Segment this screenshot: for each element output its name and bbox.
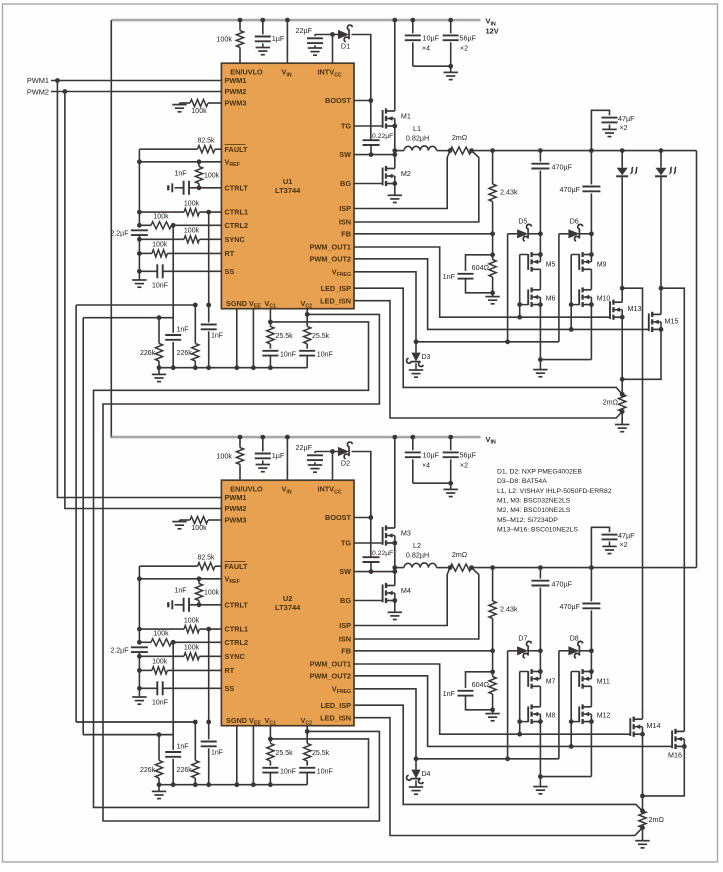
- ground 22uF U2: [308, 464, 322, 466]
- transistor M4: [386, 585, 395, 587]
- svg-text:100k: 100k: [153, 631, 169, 638]
- svg-text:12V: 12V: [486, 26, 499, 35]
- svg-text:M9: M9: [597, 262, 607, 269]
- wire VREF pin U1: [139, 161, 221, 163]
- capacitor 22uF INTVCC U2: [314, 452, 316, 454]
- svg-text:82.5k: 82.5k: [197, 555, 215, 562]
- capacitor 1nF A U2: [172, 735, 174, 750]
- svg-text:PWM2: PWM2: [225, 504, 247, 513]
- wire CTRL1 shared bus: [75, 305, 77, 722]
- resistor 100k EN/UVLO U1: [239, 20, 241, 31]
- wire CTRLT pin U2: [189, 604, 221, 606]
- transistor M7: [532, 671, 541, 673]
- resistor 604Ohm U1: [492, 234, 494, 260]
- wire VC1 shared loop: [94, 322, 369, 808]
- svg-text:TG: TG: [341, 539, 351, 548]
- svg-text:PWM_OUT2: PWM_OUT2: [310, 671, 351, 680]
- svg-text:2mΩ: 2mΩ: [649, 815, 665, 824]
- svg-text:CTRLT: CTRLT: [225, 600, 249, 609]
- wire M11 column: [590, 651, 592, 672]
- svg-text:M14: M14: [647, 721, 661, 730]
- diode D6 schottky: [559, 233, 569, 235]
- svg-text:100k: 100k: [184, 228, 200, 235]
- resistor 100k CTRL1 U2: [139, 628, 184, 630]
- svg-text:1nF: 1nF: [174, 587, 186, 594]
- svg-text:RT: RT: [225, 249, 235, 258]
- resistor 2mOhm LED sense 2: [642, 796, 644, 811]
- svg-text:0.82µH: 0.82µH: [406, 550, 429, 559]
- svg-text:M10: M10: [597, 296, 611, 303]
- wire FET cell ground join 1: [540, 359, 591, 361]
- diode D2 schottky: [338, 447, 349, 456]
- svg-text:100k: 100k: [184, 200, 200, 207]
- ground 47uF 2: [602, 545, 616, 547]
- svg-text:SS: SS: [225, 267, 235, 276]
- wire output rail 1: [395, 150, 404, 152]
- resistor 100k EN/UVLO U2: [239, 437, 241, 448]
- capacitor 1nF B U1: [208, 305, 210, 322]
- diode D1 schottky: [338, 30, 349, 39]
- svg-text:PWM_OUT1: PWM_OUT1: [310, 660, 351, 669]
- wire ISN kelvin U1: [354, 151, 479, 222]
- svg-text:CTRL2: CTRL2: [225, 221, 249, 230]
- svg-text:25.5k: 25.5k: [276, 750, 294, 757]
- svg-text:M3: M3: [401, 529, 411, 538]
- U2 top pin labels: [230, 485, 342, 496]
- svg-text:LED_ISP: LED_ISP: [321, 284, 352, 293]
- svg-text:56µF: 56µF: [460, 34, 477, 43]
- transistor M8: [532, 706, 541, 708]
- svg-text:D1: D1: [341, 42, 350, 51]
- svg-text:LED_ISP: LED_ISP: [321, 701, 352, 710]
- capacitor 1nF B U2: [208, 722, 210, 739]
- svg-text:1nF: 1nF: [177, 327, 189, 334]
- resistor 100k RT U2: [139, 669, 152, 671]
- ground FET cells 2: [533, 786, 547, 788]
- svg-text:0.82µH: 0.82µH: [406, 133, 429, 142]
- wire filter cap ground join 2: [413, 482, 451, 484]
- transistor M1: [386, 110, 395, 112]
- U2 left pin labels: [225, 493, 249, 693]
- transistor M5: [532, 254, 541, 256]
- svg-text:22µF: 22µF: [295, 26, 312, 35]
- svg-text:1µF: 1µF: [272, 451, 285, 460]
- capacitor 1nF FB U1: [466, 255, 493, 271]
- diode D7 schottky: [508, 650, 517, 652]
- wire SW pin U1: [354, 154, 395, 156]
- transistor M3: [386, 527, 395, 529]
- U2 bottom pin labels: [226, 716, 312, 727]
- svg-text:SW: SW: [339, 567, 351, 576]
- node CTRLT input probe symbol U1: [167, 185, 169, 190]
- capacitor 10nF VC2 U2: [299, 767, 315, 769]
- svg-text:M13: M13: [628, 304, 642, 313]
- svg-text:10nF: 10nF: [280, 768, 296, 775]
- resistor 100k CTRL1 U1: [139, 211, 184, 213]
- svg-text:2mΩ: 2mΩ: [452, 133, 468, 142]
- svg-text:M16: M16: [668, 751, 682, 760]
- U2 designator label: [275, 594, 301, 612]
- svg-text:FAULT: FAULT: [225, 562, 249, 571]
- svg-text:CTRL2: CTRL2: [225, 638, 249, 647]
- diode D5 schottky: [508, 233, 517, 235]
- capacitor 1uF VIN U2: [262, 437, 264, 451]
- wire SGND rail U1: [159, 367, 307, 369]
- ground 1uF U2: [256, 464, 270, 466]
- wire LED2 cathode: [660, 176, 662, 289]
- svg-text:TG: TG: [341, 122, 351, 131]
- svg-text:PWM2: PWM2: [27, 87, 49, 96]
- capacitor 10nF VC1 U1: [262, 350, 278, 352]
- wire D1 cathode to BOOST: [352, 35, 371, 141]
- capacitor 1nF A U1: [172, 318, 174, 333]
- svg-text:470µF: 470µF: [559, 185, 580, 194]
- svg-text:SYNC: SYNC: [225, 652, 246, 661]
- transistor M6: [532, 289, 541, 291]
- wire M1 drain to VIN rail: [394, 20, 396, 111]
- svg-text:1µF: 1µF: [272, 34, 285, 43]
- svg-text:LED_ISN: LED_ISN: [320, 296, 351, 305]
- ground M4 source: [388, 611, 402, 613]
- wire output rail 2: [395, 567, 404, 569]
- svg-text:D7: D7: [518, 636, 527, 643]
- svg-text:ISN: ISN: [339, 218, 351, 227]
- wire VIN pin U1: [286, 20, 288, 63]
- svg-text:2.43k: 2.43k: [500, 187, 518, 196]
- svg-text:CTRLT: CTRLT: [225, 183, 249, 192]
- capacitor 22uF INTVCC U1: [314, 35, 316, 37]
- resistor 100k RT U1: [139, 252, 152, 254]
- wire VIN rail drop to lower half: [110, 20, 112, 438]
- svg-text:×2: ×2: [620, 542, 628, 549]
- resistor 2.43k U2: [492, 568, 494, 601]
- transistor M2: [386, 168, 395, 170]
- resistor 25.5k VC2 U1: [306, 309, 308, 327]
- wire FB pin U1: [354, 233, 493, 235]
- resistor 100k PWM3 U1: [172, 104, 186, 106]
- svg-text:0.22µF: 0.22µF: [372, 550, 393, 557]
- svg-text:PWM_OUT2: PWM_OUT2: [310, 254, 351, 263]
- svg-text:226k: 226k: [177, 350, 193, 357]
- svg-text:47µF: 47µF: [618, 114, 635, 123]
- svg-text:ISP: ISP: [339, 621, 351, 630]
- resistor 100k PWM3 U2: [172, 521, 186, 523]
- U1 bottom pin labels: [226, 299, 312, 310]
- svg-text:LT3744: LT3744: [275, 603, 301, 612]
- svg-text:22µF: 22µF: [295, 443, 312, 452]
- wire PWM_OUT1 net U2: [354, 664, 630, 734]
- ground 47uF 1: [602, 128, 616, 130]
- resistor 25.5k VC1 U2: [269, 726, 271, 744]
- wire VFNEG net U1: [354, 272, 416, 342]
- capacitor 47uF x2 2: [591, 527, 609, 567]
- svg-text:M5–M12: Si7234DP: M5–M12: Si7234DP: [497, 517, 558, 524]
- svg-text:SW: SW: [339, 150, 351, 159]
- svg-text:D3–D8: BAT54A: D3–D8: BAT54A: [497, 478, 547, 485]
- svg-text:100k: 100k: [191, 108, 207, 115]
- svg-text:10nF: 10nF: [317, 351, 333, 358]
- svg-text:CTRL1: CTRL1: [225, 208, 249, 217]
- wire M9 column: [590, 234, 592, 255]
- svg-text:604Ω: 604Ω: [472, 680, 490, 689]
- wire LED string 1 column: [621, 151, 623, 168]
- resistor 2.43k U1: [492, 151, 494, 184]
- resistor 226k B U2: [194, 722, 196, 760]
- svg-text:0.22µF: 0.22µF: [372, 133, 393, 140]
- svg-text:×4: ×4: [422, 462, 430, 469]
- wire D7 anode bypass: [507, 651, 509, 759]
- ground 604Ohm U1: [485, 296, 499, 298]
- wire D2 cathode to BOOST: [352, 452, 371, 558]
- svg-text:100k: 100k: [216, 35, 232, 44]
- wire LED1 node to M14 column: [622, 288, 642, 706]
- transistor M16: [676, 730, 685, 732]
- svg-text:M7: M7: [546, 679, 556, 686]
- svg-text:100k: 100k: [216, 452, 232, 461]
- wire M15 source down: [622, 329, 661, 379]
- svg-text:10nF: 10nF: [152, 700, 168, 707]
- wire M1 source to SW: [394, 126, 396, 155]
- transistor M10: [583, 289, 592, 291]
- svg-text:604Ω: 604Ω: [472, 263, 490, 272]
- svg-text:PWM_OUT1: PWM_OUT1: [310, 243, 351, 252]
- wire D5 anode bypass: [507, 234, 509, 342]
- wire TG pin U1: [354, 125, 383, 127]
- capacitor 10nF VC1 U2: [262, 767, 278, 769]
- inductor L2 0.82uH: [404, 563, 437, 568]
- svg-text:LED_ISN: LED_ISN: [320, 713, 351, 722]
- svg-text:LT3744: LT3744: [275, 186, 301, 195]
- svg-text:M5: M5: [546, 262, 556, 269]
- resistor 2mOhm sense 1: [450, 147, 472, 154]
- svg-text:FAULT: FAULT: [225, 145, 249, 154]
- svg-text:×4: ×4: [422, 45, 430, 52]
- transistor M13: [613, 301, 622, 303]
- svg-text:FB: FB: [341, 646, 351, 655]
- inductor L1 0.82uH: [404, 146, 437, 151]
- svg-text:1nF: 1nF: [443, 272, 456, 281]
- svg-text:D1, D2: NXP PMEG4002EB: D1, D2: NXP PMEG4002EB: [497, 469, 582, 476]
- transistor M15: [652, 313, 661, 315]
- svg-text:BG: BG: [340, 596, 351, 605]
- svg-text:SGND: SGND: [226, 299, 247, 308]
- wire LED_ISN kelvin U2: [354, 718, 643, 836]
- svg-text:BG: BG: [340, 179, 351, 188]
- wire gate bus M5/M6: [519, 255, 521, 318]
- wire BG pin U1: [354, 183, 383, 185]
- wire D6 anode bypass: [558, 234, 560, 342]
- wire VEE pin drop U1: [252, 309, 254, 368]
- wire VFNEG net U2: [354, 689, 416, 759]
- resistor 226k B U1: [194, 305, 196, 343]
- wire LED2 node to M16 column: [661, 288, 684, 716]
- node SW junction 1: [392, 148, 397, 153]
- wire L1 to sense resistor: [437, 150, 451, 152]
- resistor 100k CTRL2 U1: [139, 224, 151, 226]
- svg-text:56µF: 56µF: [460, 451, 477, 460]
- svg-text:1nF: 1nF: [211, 333, 223, 340]
- svg-text:BOOST: BOOST: [325, 96, 351, 105]
- resistor 25.5k VC2 U2: [306, 726, 308, 744]
- transistor M11: [583, 671, 592, 673]
- svg-text:2.2µF: 2.2µF: [110, 648, 128, 655]
- svg-text:470µF: 470µF: [559, 602, 580, 611]
- svg-text:PWM3: PWM3: [225, 516, 247, 525]
- ground 22uF U1: [308, 47, 322, 49]
- svg-text:L1, L2: VISHAY IHLP-5050FD-ERR: L1, L2: VISHAY IHLP-5050FD-ERR82: [497, 488, 612, 495]
- svg-text:PWM1: PWM1: [27, 76, 49, 85]
- svg-text:M11: M11: [597, 679, 610, 686]
- svg-text:1nF: 1nF: [174, 170, 186, 177]
- ground M2 source: [388, 194, 402, 196]
- wire M4 drain to SW: [394, 572, 396, 586]
- svg-text:PWM1: PWM1: [225, 493, 247, 502]
- svg-text:M13–M16: BSC010NE2LS: M13–M16: BSC010NE2LS: [497, 526, 578, 533]
- diode D4 clamp: [415, 759, 417, 770]
- svg-text:SYNC: SYNC: [225, 235, 246, 244]
- capacitor 2.2uF bus U2: [131, 646, 148, 648]
- wire FB pin U2: [354, 650, 493, 652]
- capacitor 10nF SS U2: [139, 687, 157, 689]
- svg-text:ISN: ISN: [339, 635, 351, 644]
- svg-text:M8: M8: [546, 713, 556, 720]
- svg-text:100k: 100k: [191, 525, 207, 532]
- wire VIN pin U2: [286, 437, 288, 480]
- wire PWM_OUT2 net U1: [354, 259, 649, 330]
- svg-text:1nF: 1nF: [177, 744, 189, 751]
- wire CTRL2 shared bus: [82, 318, 84, 735]
- wire PWM_OUT2 net U2: [354, 676, 672, 747]
- net VIN rail 1: [111, 19, 480, 22]
- capacitor 10nF SS U1: [139, 270, 157, 272]
- resistor 82.5k FAULT U2: [215, 565, 221, 567]
- capacitor 47uF x2 1: [591, 110, 609, 150]
- svg-text:M4: M4: [401, 586, 411, 595]
- wire M4 source to ground: [394, 601, 396, 613]
- svg-text:100k: 100k: [184, 645, 200, 652]
- svg-text:10µF: 10µF: [423, 34, 440, 43]
- wire TG pin U2: [354, 542, 383, 544]
- svg-text:1nF: 1nF: [443, 689, 456, 698]
- wire CTRLT pin U1: [189, 187, 221, 189]
- U1 designator label: [275, 177, 301, 195]
- svg-text:EN/UVLO: EN/UVLO: [230, 68, 263, 77]
- LED string 2: [656, 168, 667, 176]
- svg-text:226k: 226k: [140, 350, 156, 357]
- svg-text:SS: SS: [225, 684, 235, 693]
- wire LED_ISP kelvin U2: [354, 705, 643, 811]
- wire SGND pin drop U2: [236, 726, 238, 785]
- wire BG pin U2: [354, 600, 383, 602]
- svg-text:×2: ×2: [620, 125, 628, 132]
- svg-text:2mΩ: 2mΩ: [603, 398, 619, 407]
- svg-text:M6: M6: [546, 296, 556, 303]
- wire LED1 cathode: [621, 176, 623, 289]
- wire PWM_OUT1 net U1: [354, 247, 610, 317]
- svg-text:D8: D8: [570, 636, 579, 643]
- resistor 604Ohm U2: [492, 651, 494, 677]
- wire LED_ISP kelvin U1: [354, 288, 622, 394]
- svg-text:25.5k: 25.5k: [276, 333, 294, 340]
- ground 1uF U1: [256, 47, 270, 49]
- transistor M9: [583, 254, 592, 256]
- svg-text:10nF: 10nF: [152, 283, 168, 290]
- svg-text:L2: L2: [413, 541, 421, 550]
- wire D8 anode bypass: [558, 651, 560, 759]
- svg-text:M15: M15: [665, 317, 679, 326]
- svg-text:M2, M4: BSC010NE2LS: M2, M4: BSC010NE2LS: [497, 507, 571, 514]
- U1 right pin labels: [310, 96, 352, 305]
- notes component table: [497, 469, 612, 534]
- wire VREF pin U2: [139, 578, 221, 580]
- net VIN rail 2: [111, 436, 480, 439]
- wire output rail right edge drop: [696, 151, 698, 568]
- ground filter caps 2: [444, 488, 458, 490]
- wire output rail after sense 2: [472, 567, 697, 569]
- resistor 226k A U2: [158, 735, 160, 761]
- capacitor 10uF x4 2: [412, 437, 414, 450]
- ground 2mOhm LED sense 1: [615, 424, 629, 426]
- svg-text:RT: RT: [225, 666, 235, 675]
- svg-text:M2: M2: [401, 169, 411, 178]
- svg-text:100k: 100k: [184, 617, 200, 624]
- svg-text:U1: U1: [283, 177, 293, 186]
- capacitor 0.22uF boost U2: [363, 556, 380, 558]
- svg-text:×2: ×2: [460, 45, 468, 52]
- capacitor 2.2uF bus U1: [131, 229, 148, 231]
- wire LED_ISN kelvin U1: [354, 301, 622, 418]
- resistor 2mOhm LED sense 1: [621, 379, 623, 394]
- svg-text:82.5k: 82.5k: [197, 138, 215, 145]
- IC U2 LT3744 block: [221, 480, 354, 726]
- svg-text:100k: 100k: [152, 659, 168, 666]
- capacitor 1nF FB U2: [466, 672, 493, 688]
- svg-text:100k: 100k: [204, 173, 220, 180]
- ground SGND rail U2: [158, 785, 160, 792]
- resistor 100k VREF-CTRLT U2: [198, 579, 200, 584]
- wire M14 source down: [642, 734, 644, 796]
- wire L2 to sense resistor: [437, 567, 451, 569]
- svg-text:100k: 100k: [153, 214, 169, 221]
- svg-text:1nF: 1nF: [211, 750, 223, 757]
- capacitor 56uF x2 1: [450, 20, 452, 33]
- wire filter cap ground join 1: [413, 65, 451, 67]
- capacitor 1uF VIN U1: [262, 20, 264, 34]
- wire SW pin U2: [354, 571, 395, 573]
- resistor 100k SYNC U1: [139, 238, 184, 240]
- capacitor 1nF CTRLT U2: [183, 598, 185, 612]
- wire CTRL2 node bus U2: [172, 642, 174, 734]
- resistor 100k SYNC U2: [139, 655, 184, 657]
- IC U1 LT3744 block: [221, 63, 354, 309]
- ground FET cells 1: [533, 369, 547, 371]
- wire ISP kelvin U2: [354, 568, 450, 626]
- wire VEE pin drop U2: [252, 726, 254, 785]
- svg-text:D2: D2: [341, 459, 350, 468]
- svg-text:PWM2: PWM2: [225, 87, 247, 96]
- svg-text:D4: D4: [422, 771, 431, 778]
- svg-text:10nF: 10nF: [280, 351, 296, 358]
- svg-text:FB: FB: [341, 229, 351, 238]
- svg-text:U2: U2: [283, 594, 293, 603]
- svg-text:M1, M3: BSC032NE2LS: M1, M3: BSC032NE2LS: [497, 497, 571, 504]
- wire left bias bus U2: [138, 566, 140, 644]
- wire gate bus M11/M12: [570, 672, 572, 747]
- ground 604Ohm U2: [485, 713, 499, 715]
- capacitor 470uF A 2: [539, 568, 541, 579]
- transistor M14: [634, 718, 643, 720]
- capacitor 10nF VC2 U1: [299, 350, 315, 352]
